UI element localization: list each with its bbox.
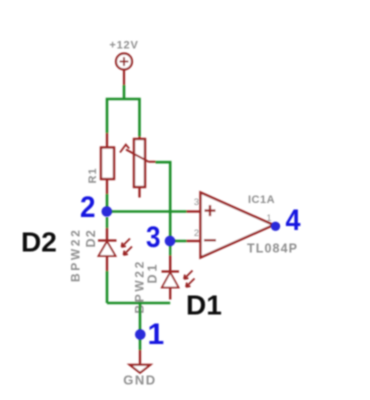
photodiode D1 light arrows xyxy=(184,271,195,288)
svg-text:BPW22: BPW22 xyxy=(69,228,83,282)
pin number 2 (op-amp - input) xyxy=(194,228,199,239)
resistor R1 xyxy=(101,133,114,194)
label IC1A xyxy=(248,194,275,206)
svg-text:1: 1 xyxy=(266,213,271,223)
wire: node 2 down to D2 xyxy=(106,217,108,240)
wire: bottom rail xyxy=(107,302,170,305)
trimmer resistor R2 xyxy=(134,137,145,198)
ground xyxy=(130,365,151,373)
wire: bottom rail to node 1 and GND xyxy=(139,302,142,350)
node 2 junction dot xyxy=(102,206,113,217)
svg-text:GND: GND xyxy=(123,373,156,388)
svg-text:TL084P: TL084P xyxy=(247,242,298,256)
wire: node 2 to op-amp + input xyxy=(107,210,187,213)
value label BPW22 (D1) xyxy=(133,259,147,313)
wire: node 3 to op-amp - input xyxy=(170,240,186,243)
name label D2 (gray) xyxy=(84,229,98,247)
photodiode D1 xyxy=(162,272,180,300)
svg-text:IC1A: IC1A xyxy=(248,194,275,206)
trimmer R2 wiper arrow xyxy=(120,145,156,162)
svg-text:D1: D1 xyxy=(146,262,160,284)
label R1 xyxy=(87,167,99,183)
svg-text:2: 2 xyxy=(80,191,96,224)
svg-text:3: 3 xyxy=(146,221,161,254)
op-amp U1 pin stub + input xyxy=(187,210,201,212)
wire: D2 down to bottom rail xyxy=(106,271,109,303)
wire: GND stub xyxy=(139,350,141,365)
svg-text:+12V: +12V xyxy=(109,40,138,52)
wire: node 3 down to D1 xyxy=(169,241,171,271)
value label BPW22 (D2) xyxy=(69,228,83,282)
op-amp U1 pin stub - input xyxy=(187,240,201,242)
photodiode D2 xyxy=(98,241,117,272)
node 3 junction dot xyxy=(165,236,176,247)
svg-text:3: 3 xyxy=(194,197,199,208)
wire: wiper to node 3 xyxy=(156,162,171,241)
svg-text:1: 1 xyxy=(148,318,165,351)
op-amp U1 IC1A xyxy=(201,193,280,258)
wire: supply vertical xyxy=(123,85,126,100)
label +12V xyxy=(109,40,138,52)
svg-text:D1: D1 xyxy=(186,290,222,321)
label GND xyxy=(123,373,156,388)
label TL084P xyxy=(247,242,298,256)
node 1 junction dot xyxy=(135,329,146,340)
svg-text:4: 4 xyxy=(286,204,301,237)
pin number 3 (op-amp + input) xyxy=(194,197,199,208)
pin number 1 (op-amp output) xyxy=(266,213,271,223)
svg-text:D2: D2 xyxy=(21,227,57,258)
node 4 junction dot xyxy=(271,222,280,231)
wire: supply rail to branches xyxy=(107,99,140,137)
wire: R1 to node 2 xyxy=(106,194,109,212)
power +12V symbol xyxy=(116,54,132,86)
name label D1 (gray) xyxy=(146,262,160,284)
svg-text:D2: D2 xyxy=(84,229,98,247)
photodiode D2 light arrows xyxy=(122,239,133,256)
svg-text:R1: R1 xyxy=(87,167,99,183)
svg-text:2: 2 xyxy=(194,228,199,239)
